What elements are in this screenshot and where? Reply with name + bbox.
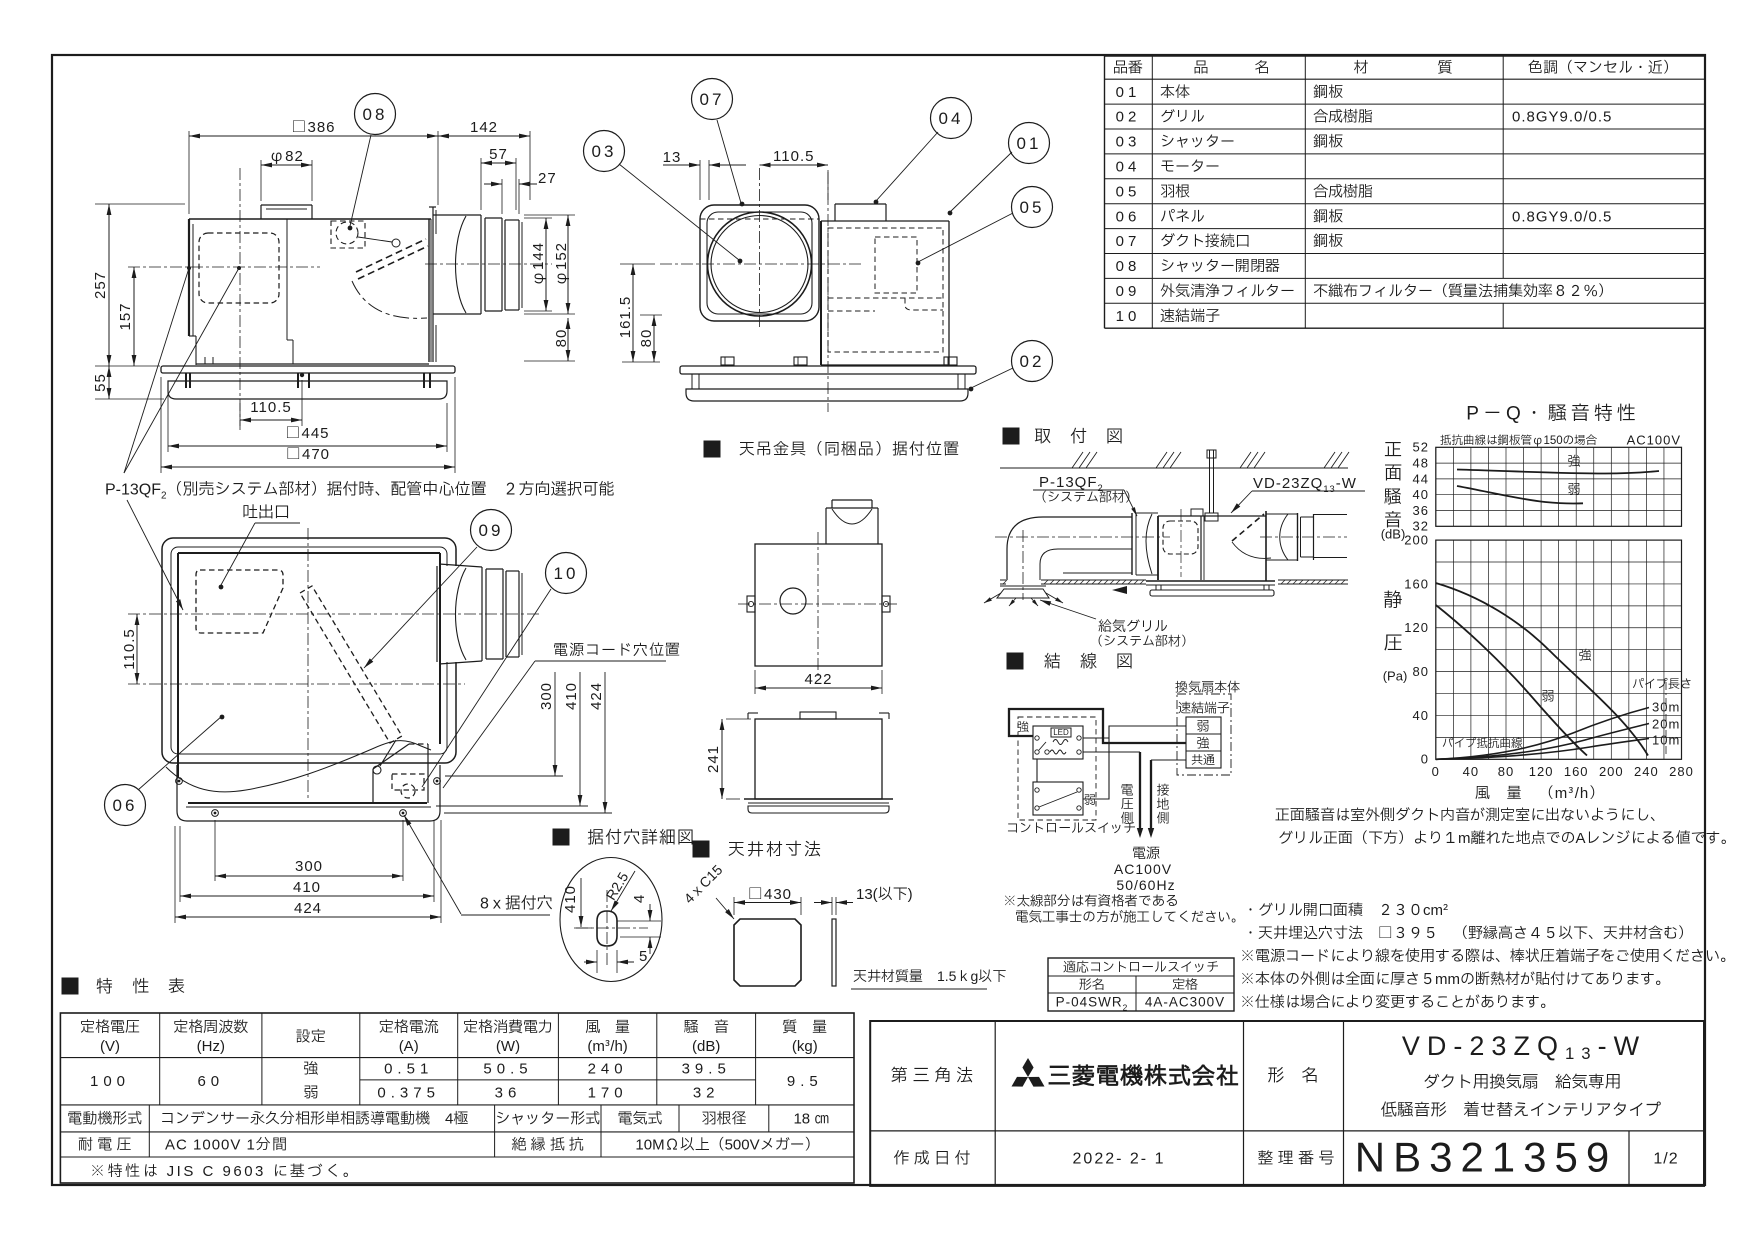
motor clamp on top — [834, 204, 836, 221]
parts table frame — [1104, 56, 1106, 328]
supply grill under ceiling — [1000, 585, 1046, 587]
bottom dims 300/410/424 — [214, 820, 216, 881]
svg-text:04: 04 — [939, 107, 964, 132]
svg-text:※電源コードにより線を使用する際は、棒状圧着端子をご使用くだ: ※電源コードにより線を使用する際は、棒状圧着端子をご使用ください。 — [1240, 945, 1735, 968]
svg-text:鋼板: 鋼板 — [1313, 205, 1343, 228]
dim 386 — [188, 131, 190, 214]
svg-text:0.8GY9.0/0.5: 0.8GY9.0/0.5 — [1512, 205, 1612, 228]
dim 422 — [754, 670, 756, 694]
svg-text:・天井埋込穴寸法 □３９５ （野縁高さ４５以下、天井材含む）: ・天井埋込穴寸法 □３９５ （野縁高さ４５以下、天井材含む） — [1243, 922, 1693, 945]
top view: side tabs — [747, 596, 755, 612]
dim 445 — [167, 385, 169, 452]
svg-text:(V): (V) — [100, 1035, 120, 1058]
dim phi152 — [524, 214, 575, 216]
svg-text:(A): (A) — [399, 1035, 419, 1058]
svg-text:(Pa): (Pa) — [1383, 666, 1408, 686]
svg-text:コンデンサー永久分相形単相誘導電動機 4極: コンデンサー永久分相形単相誘導電動機 4極 — [160, 1108, 468, 1131]
svg-text:300: 300 — [535, 682, 558, 710]
svg-text:三菱電機株式会社: 三菱電機株式会社 — [1048, 1061, 1240, 1095]
svg-text:吐出口: 吐出口 — [242, 501, 290, 525]
svg-text:共通: 共通 — [1191, 752, 1215, 770]
outlet opening dashed — [196, 570, 283, 633]
front view: bellmouth circles — [708, 212, 812, 316]
slot centerlines — [606, 890, 608, 968]
svg-text:(Hz): (Hz) — [197, 1035, 225, 1058]
bottom view: panel inner line — [171, 547, 447, 754]
svg-text:グリル正面（下方）より１m離れた地点でのAレンジによる値です: グリル正面（下方）より１m離れた地点でのAレンジによる値です。 — [1278, 827, 1736, 850]
svg-text:80: 80 — [550, 329, 573, 348]
top view centerlines — [738, 603, 899, 605]
svg-text:0: 0 — [1432, 762, 1440, 782]
svg-text:240: 240 — [1634, 762, 1659, 782]
detail balloon ellipse — [560, 858, 662, 982]
centerline v x308 — [307, 528, 309, 798]
dim 142 — [529, 131, 531, 200]
front view: body — [820, 221, 822, 365]
svg-text:01: 01 — [1116, 81, 1141, 104]
svg-text:240: 240 — [588, 1058, 628, 1081]
dim 4 (detail) — [617, 920, 661, 922]
feet ticks — [185, 373, 187, 388]
elbow duct — [1007, 517, 1132, 580]
svg-text:410: 410 — [293, 876, 321, 899]
caption 天吊金具 — [704, 441, 720, 457]
ceiling board edge view — [832, 919, 836, 986]
svg-text:8ｘ据付穴: 8ｘ据付穴 — [480, 892, 553, 916]
svg-text:弱: 弱 — [303, 1082, 318, 1105]
svg-text:60: 60 — [197, 1070, 224, 1093]
svg-text:据付穴詳細図: 据付穴詳細図 — [587, 826, 695, 851]
svg-text:弱: 弱 — [1084, 792, 1096, 810]
svg-text:200: 200 — [1599, 762, 1624, 782]
front view: duct adapter rounded square — [700, 205, 819, 321]
balloon 08 — [355, 94, 396, 135]
svg-text:パネル: パネル — [1160, 205, 1205, 228]
svg-text:羽根径: 羽根径 — [701, 1108, 746, 1131]
svg-text:□430: □430 — [748, 883, 792, 906]
dim 27 — [501, 179, 503, 214]
svg-text:157: 157 — [114, 302, 137, 330]
screw holes bottom — [212, 810, 219, 817]
svg-text:04: 04 — [1116, 155, 1141, 178]
dim 57 — [480, 158, 482, 210]
svg-text:取 付 図: 取 付 図 — [1034, 425, 1124, 450]
svg-text:410: 410 — [559, 885, 582, 913]
ceiling square (chamfered) — [734, 919, 801, 986]
svg-text:φ144: φ144 — [527, 242, 550, 286]
top view: collar — [825, 508, 827, 544]
svg-text:(W): (W) — [496, 1035, 520, 1058]
svg-text:φ82: φ82 — [269, 145, 304, 168]
elevation small view — [755, 719, 882, 799]
section header: mounting hole detail — [553, 829, 569, 845]
svg-text:パイプ長さ: パイプ長さ — [1632, 676, 1692, 694]
centerline h y684 — [128, 683, 465, 685]
svg-text:側: 側 — [1156, 808, 1169, 828]
fan flange/panel — [1146, 580, 1275, 582]
front flange bar — [680, 366, 976, 374]
svg-text:241: 241 — [702, 745, 725, 773]
svg-text:鋼板: 鋼板 — [1313, 81, 1343, 104]
svg-text:作 成 日 付: 作 成 日 付 — [893, 1147, 970, 1171]
dim 13 (ceiling) — [831, 897, 833, 915]
svg-text:結 線 図: 結 線 図 — [1044, 650, 1134, 675]
dim 241 — [726, 718, 751, 720]
duct centerline — [425, 263, 552, 265]
svg-text:□470: □470 — [286, 443, 330, 466]
svg-text:06: 06 — [113, 794, 138, 819]
svg-text:LED: LED — [1053, 727, 1069, 739]
section header: wiring diagram — [1007, 653, 1023, 669]
svg-text:0: 0 — [1421, 750, 1429, 770]
svg-text:36: 36 — [495, 1082, 522, 1105]
svg-text:合成樹脂: 合成樹脂 — [1313, 106, 1373, 129]
svg-text:AC 1000V 1分間: AC 1000V 1分間 — [165, 1134, 288, 1157]
balloon 03 leader — [619, 164, 739, 260]
svg-text:13: 13 — [663, 146, 682, 169]
centerline vertical x240 — [239, 168, 241, 430]
shutter opener motor (dashed box + circle) — [331, 221, 365, 248]
duct ring B — [501, 218, 503, 311]
svg-text:VD-23ZQ13-W: VD-23ZQ13-W — [1402, 1026, 1646, 1067]
svg-text:09: 09 — [1116, 280, 1141, 303]
svg-text:110.5: 110.5 — [773, 145, 814, 168]
dim 5 (detail) — [596, 950, 598, 973]
terminal cells — [1186, 717, 1221, 768]
svg-text:低騒音形 着せ替えインテリアタイプ: 低騒音形 着せ替えインテリアタイプ — [1381, 1100, 1662, 1124]
fan suction opening dashed — [1163, 521, 1198, 554]
svg-text:電動機形式: 電動機形式 — [67, 1108, 142, 1131]
lower switch block — [1033, 782, 1083, 815]
balloon 01 — [1009, 123, 1050, 164]
svg-text:02: 02 — [1116, 106, 1141, 129]
wiring: voltage side — [1083, 751, 1140, 753]
svg-text:4: 4 — [628, 895, 651, 903]
svg-text:品番: 品番 — [1113, 57, 1143, 80]
bottom view duct — [436, 566, 438, 662]
svg-text:強: 強 — [1017, 719, 1029, 737]
svg-text:27: 27 — [538, 167, 557, 190]
balloon 09 — [364, 547, 477, 668]
svg-text:32: 32 — [693, 1082, 720, 1105]
balloon 10 — [546, 553, 587, 594]
svg-text:VD-23ZQ13-W: VD-23ZQ13-W — [1253, 472, 1357, 497]
balloon 07 — [692, 79, 733, 120]
dim 410 (detail) — [580, 878, 582, 927]
upper switch block — [1033, 726, 1083, 759]
body hidden lines — [828, 228, 943, 352]
centerline horizontal y267 — [128, 266, 320, 268]
terminal box dash-dot — [1177, 694, 1231, 775]
svg-text:P-04SWR2: P-04SWR2 — [1056, 993, 1129, 1015]
svg-text:速結端子: 速結端子 — [1160, 305, 1220, 328]
svg-text:(m³/h): (m³/h) — [587, 1035, 627, 1058]
svg-text:弱: 弱 — [1567, 479, 1580, 499]
svg-text:80: 80 — [1498, 762, 1514, 782]
svg-text:08: 08 — [1116, 255, 1141, 278]
svg-text:160: 160 — [1564, 762, 1589, 782]
screw holes side — [176, 778, 183, 785]
svg-text:0.51: 0.51 — [384, 1058, 433, 1081]
svg-text:120: 120 — [1529, 762, 1554, 782]
svg-text:55: 55 — [89, 373, 112, 392]
svg-text:静: 静 — [1383, 587, 1402, 615]
svg-text:正面騒音は室外側ダクト内音が測定室に出ないようにし、: 正面騒音は室外側ダクト内音が測定室に出ないようにし、 — [1275, 804, 1665, 827]
svg-text:2022- 2- 1: 2022- 2- 1 — [1073, 1147, 1166, 1171]
svg-text:耐 電 圧: 耐 電 圧 — [78, 1134, 131, 1157]
balloon 05 — [918, 213, 1013, 262]
spec table verticals — [159, 1013, 161, 1105]
white patch under duct — [444, 566, 458, 662]
spec table frame — [60, 1013, 854, 1183]
svg-text:110.5: 110.5 — [118, 628, 141, 669]
svg-text:整 理 番 号: 整 理 番 号 — [1257, 1147, 1334, 1171]
svg-text:特 性 表: 特 性 表 — [96, 975, 186, 1000]
svg-text:強: 強 — [1567, 451, 1580, 471]
svg-text:電気工事士の方が施工してください。: 電気工事士の方が施工してください。 — [1015, 908, 1245, 928]
svg-text:パイプ抵抗曲線: パイプ抵抗曲線 — [1442, 736, 1523, 753]
svg-text:φ152: φ152 — [550, 242, 573, 286]
svg-text:(dB): (dB) — [692, 1035, 720, 1058]
svg-text:424: 424 — [294, 897, 322, 920]
svg-text:05: 05 — [1116, 180, 1141, 203]
balloon 04 — [876, 132, 938, 201]
duct ring A — [480, 215, 482, 314]
bottom chart grid — [1435, 540, 1437, 759]
svg-text:01: 01 — [1017, 132, 1042, 157]
side view body box — [189, 218, 431, 220]
balloon 04 — [931, 98, 972, 139]
fan body — [1157, 516, 1159, 580]
svg-text:10m: 10m — [1652, 730, 1680, 750]
svg-text:06: 06 — [1116, 205, 1141, 228]
dim phi144 — [524, 217, 552, 219]
pipe resistance curves — [1436, 708, 1649, 760]
svg-text:(dB): (dB) — [1381, 524, 1406, 544]
cord hole dashed circle — [401, 784, 415, 798]
shutter open position (dashed) — [356, 239, 426, 272]
svg-text:側: 側 — [1120, 808, 1133, 828]
svg-text:（システム部材）: （システム部材） — [1090, 631, 1194, 651]
dim 110.5 bottom side view — [239, 403, 241, 426]
shutter rod — [380, 740, 396, 766]
svg-text:1/2: 1/2 — [1653, 1147, 1678, 1171]
cord hole dashed rect — [392, 774, 424, 790]
svg-text:外気清浄フィルター: 外気清浄フィルター — [1160, 280, 1295, 303]
duct tube — [485, 217, 502, 219]
svg-text:名: 名 — [1254, 57, 1269, 80]
top view: body square — [755, 544, 882, 666]
top curve weak — [1457, 486, 1583, 504]
top collar (phi82) — [261, 204, 312, 206]
title block frame — [870, 1021, 1704, 1186]
svg-text:0.8GY9.0/0.5: 0.8GY9.0/0.5 — [1512, 106, 1612, 129]
svg-text:257: 257 — [89, 271, 112, 299]
svg-text:羽根: 羽根 — [1160, 180, 1190, 203]
svg-text:39.5: 39.5 — [682, 1058, 731, 1081]
duct bell section — [433, 214, 481, 216]
svg-text:速結端子: 速結端子 — [1178, 698, 1230, 718]
flow arrow into grill — [1112, 586, 1127, 594]
dim 110.5 (front) — [760, 164, 829, 166]
svg-text:170: 170 — [588, 1082, 628, 1105]
Mitsubishi logo — [1022, 1058, 1033, 1077]
svg-text:電気式: 電気式 — [617, 1108, 662, 1131]
dim 470 — [160, 377, 162, 473]
svg-text:410: 410 — [560, 682, 583, 710]
svg-text:P−Q・騒音特性: P−Q・騒音特性 — [1466, 400, 1639, 428]
svg-text:(kg): (kg) — [792, 1035, 818, 1058]
fan shutter dashed — [1232, 514, 1264, 541]
panel bottom thick edge — [188, 802, 427, 804]
svg-text:合成樹脂: 合成樹脂 — [1313, 180, 1373, 203]
svg-text:422: 422 — [804, 668, 832, 691]
grill (side view) — [168, 381, 447, 399]
duct flange plate — [432, 207, 434, 362]
svg-text:160: 160 — [1404, 574, 1429, 594]
svg-text:10: 10 — [554, 562, 579, 587]
top curve strong — [1457, 470, 1659, 474]
fan duct outlet — [1265, 511, 1267, 581]
svg-text:300: 300 — [295, 855, 323, 878]
control switch table — [1048, 958, 1234, 1011]
svg-text:材: 材 — [1353, 57, 1368, 80]
svg-text:07: 07 — [700, 88, 725, 113]
dim 161.5 (front) — [620, 263, 655, 265]
PQ curve strong — [1436, 583, 1648, 756]
svg-text:本体: 本体 — [1160, 81, 1190, 104]
svg-text:ダクト用換気扇 給気専用: ダクト用換気扇 給気専用 — [1423, 1072, 1621, 1096]
svg-text:グリル: グリル — [1160, 106, 1205, 129]
decorative wave — [166, 741, 431, 792]
svg-text:10MΩ以上（500Vメガー）: 10MΩ以上（500Vメガー） — [635, 1134, 819, 1157]
svg-text:80: 80 — [635, 329, 658, 348]
svg-text:圧: 圧 — [1383, 630, 1402, 658]
svg-text:4A-AC300V: 4A-AC300V — [1145, 993, 1225, 1013]
svg-text:10: 10 — [1116, 305, 1141, 328]
front grill — [686, 389, 968, 401]
section header: spec table — [62, 978, 78, 994]
dim 110.5 left — [136, 614, 138, 684]
balloon 06 — [138, 716, 222, 790]
svg-text:03: 03 — [1116, 131, 1141, 154]
svg-text:・グリル開口面積 ２３０cm²: ・グリル開口面積 ２３０cm² — [1243, 899, 1449, 922]
wiring: strong line (thick) — [1009, 709, 1186, 743]
front centerlines — [660, 263, 862, 265]
svg-text:100: 100 — [90, 1070, 130, 1093]
right side dim leaders 300/410/424 — [445, 775, 563, 777]
svg-text:色調（マンセル・近）: 色調（マンセル・近） — [1528, 57, 1678, 80]
centerline h y614 — [128, 613, 540, 615]
svg-text:質: 質 — [1437, 57, 1452, 80]
svg-text:5: 5 — [639, 945, 647, 968]
duct end cap — [518, 220, 520, 310]
svg-text:05: 05 — [1020, 196, 1045, 221]
hanger bolt — [1209, 450, 1211, 513]
svg-text:07: 07 — [1116, 230, 1141, 253]
balloon 01 — [950, 152, 1012, 212]
section header: installation figure — [1003, 428, 1019, 444]
svg-text:161.5: 161.5 — [614, 296, 637, 339]
svg-text:不織布フィルター（質量法捕集効率８２％）: 不織布フィルター（質量法捕集効率８２％） — [1313, 280, 1613, 303]
8x mounting hole label — [404, 815, 461, 914]
svg-text:120: 120 — [1404, 618, 1429, 638]
dim 430 — [733, 897, 735, 915]
shutter swing arc — [352, 281, 427, 318]
svg-text:強: 強 — [1578, 645, 1591, 665]
suction opening (dashed rounded square) — [199, 233, 279, 303]
top chart grid — [1435, 447, 1437, 526]
wiring: common to ground side — [1151, 759, 1186, 761]
svg-text:シャッター: シャッター — [1160, 131, 1235, 154]
svg-text:品: 品 — [1193, 57, 1208, 80]
balloon 09 — [471, 510, 512, 551]
svg-text:9.5: 9.5 — [787, 1070, 823, 1093]
svg-text:40: 40 — [1463, 762, 1479, 782]
svg-text:天吊金具（同梱品）据付位置: 天吊金具（同梱品）据付位置 — [739, 438, 960, 462]
dim 80 (front) — [640, 314, 662, 316]
svg-text:天井材寸法: 天井材寸法 — [728, 838, 823, 863]
balloon 02 — [971, 368, 1013, 388]
svg-text:200: 200 — [1404, 531, 1429, 551]
base flange bar — [161, 366, 455, 373]
continuing duct pipe — [1314, 514, 1348, 516]
svg-text:シャッター形式: シャッター形式 — [495, 1108, 600, 1131]
svg-text:280: 280 — [1669, 762, 1694, 782]
front hanger stubs — [691, 374, 693, 389]
svg-text:弱: 弱 — [1541, 686, 1554, 706]
balloon 10 — [422, 589, 551, 787]
dim 257 — [95, 203, 185, 205]
svg-text:18 ㎝: 18 ㎝ — [793, 1108, 829, 1131]
svg-text:03: 03 — [592, 140, 617, 165]
svg-text:ダクト接続口: ダクト接続口 — [1160, 230, 1250, 253]
svg-text:設定: 設定 — [296, 1026, 326, 1049]
svg-text:※仕様は場合により変更することがあります。: ※仕様は場合により変更することがあります。 — [1240, 991, 1555, 1014]
svg-text:424: 424 — [585, 682, 608, 710]
elbow centerlines — [995, 536, 1170, 538]
balloon 02 — [1012, 341, 1053, 382]
PQ curve weak — [1436, 605, 1587, 756]
top view: hole circle — [780, 588, 806, 614]
balloon 03 — [584, 131, 625, 172]
svg-text:NB321359: NB321359 — [1355, 1127, 1618, 1190]
balloon 05 — [1012, 187, 1053, 228]
svg-text:50.5: 50.5 — [483, 1058, 532, 1081]
svg-text:40: 40 — [1413, 706, 1429, 726]
dim 55 — [95, 398, 164, 400]
svg-text:80: 80 — [1413, 662, 1429, 682]
svg-text:絶 縁 抵 抗: 絶 縁 抵 抗 — [512, 1134, 585, 1157]
svg-text:第 三 角 法: 第 三 角 法 — [891, 1064, 973, 1089]
wiring: weak line — [1083, 726, 1186, 799]
svg-text:モーター: モーター — [1160, 155, 1220, 178]
svg-text:天井材質量 1.5ｋg以下: 天井材質量 1.5ｋg以下 — [853, 967, 1006, 988]
P-13QF2 note leaders — [124, 268, 189, 473]
dim phi82 — [260, 160, 262, 201]
dim 80 (side) — [524, 360, 575, 362]
svg-text:シャッター開閉器: シャッター開閉器 — [1160, 255, 1280, 278]
svg-text:※本体の外側は全面に厚さ５mmの断熱材が貼付けてあります。: ※本体の外側は全面に厚さ５mmの断熱材が貼付けてあります。 — [1240, 968, 1670, 991]
svg-text:強: 強 — [303, 1058, 318, 1081]
svg-text:02: 02 — [1020, 350, 1045, 375]
svg-text:P-13QF2（別売システム部材）据付時、配管中心位置 ２方: P-13QF2（別売システム部材）据付時、配管中心位置 ２方向選択可能 — [105, 478, 615, 503]
control switch dashed box — [1018, 717, 1096, 820]
svg-text:電源コード穴位置: 電源コード穴位置 — [553, 639, 681, 662]
svg-text:57: 57 — [489, 143, 508, 166]
svg-text:0.375: 0.375 — [377, 1082, 440, 1105]
svg-text:08: 08 — [363, 103, 388, 128]
